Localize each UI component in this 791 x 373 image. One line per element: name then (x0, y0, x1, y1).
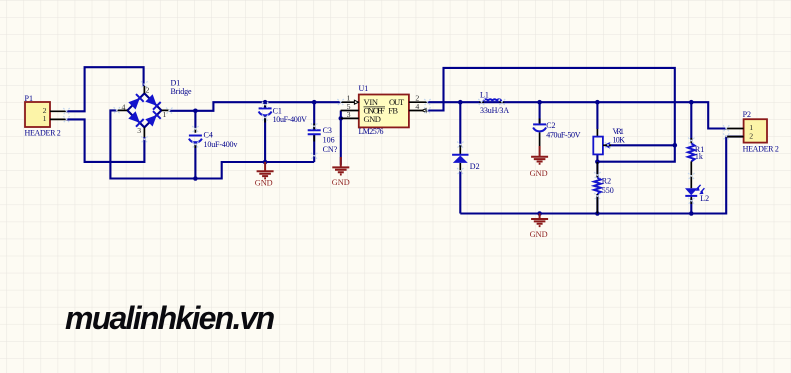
diode BR (145, 115, 157, 127)
diode D2 (452, 145, 479, 172)
U1 pin 5 ON/OFF (341, 110, 359, 112)
svg-text:1k: 1k (695, 152, 703, 161)
svg-text:P2: P2 (743, 110, 751, 119)
U1 pin 3 GND (341, 117, 359, 119)
svg-text:Bridge: Bridge (171, 87, 192, 96)
svg-text:R2: R2 (602, 176, 611, 185)
svg-text:10uF-400V: 10uF-400V (273, 115, 308, 124)
svg-text:L1: L1 (480, 90, 489, 99)
junction D2 top (458, 100, 463, 105)
pin leads (117, 86, 170, 137)
junction gnd rail R2 (595, 211, 600, 216)
U1 pin 4 FB (409, 110, 428, 112)
diode TR (145, 94, 157, 106)
svg-text:VR1: VR1 (613, 127, 624, 136)
junction FB wiper (673, 143, 678, 148)
svg-text:GND: GND (332, 178, 350, 187)
ground under C1 (255, 162, 274, 188)
junction gnd rail L2 (689, 211, 694, 216)
junction VR1 bottom (595, 159, 600, 164)
svg-text:P1: P1 (25, 94, 33, 103)
junction VR1 top (595, 100, 600, 105)
emission arrows (697, 185, 701, 189)
svg-text:CN?: CN? (323, 145, 338, 154)
svg-text:10K: 10K (613, 136, 626, 145)
svg-text:C1: C1 (273, 106, 282, 115)
svg-text:10uF-400v: 10uF-400v (204, 140, 238, 149)
diode BL (128, 111, 140, 123)
inductor L1 (479, 90, 509, 115)
svg-text:3: 3 (347, 110, 351, 119)
svg-text:C2: C2 (546, 121, 555, 130)
op-amp U1 regulator LM2576 (341, 84, 428, 136)
svg-text:1: 1 (43, 114, 47, 123)
svg-text:C4: C4 (204, 130, 213, 139)
wire VR1 wiper tap (610, 144, 675, 146)
svg-text:HEADER 2: HEADER 2 (743, 144, 779, 153)
svg-text:106: 106 (323, 135, 335, 144)
junction R1 top (689, 100, 694, 105)
svg-text:GND: GND (364, 114, 381, 124)
junction C4 bottom (193, 176, 198, 181)
svg-text:D2: D2 (470, 162, 480, 171)
wire U1 OUT rail to P2 pin1 (427, 102, 726, 128)
svg-text:L2: L2 (700, 194, 709, 203)
wire VR1 top lead (596, 102, 598, 129)
header P1 (25, 94, 67, 137)
potentiometer VR1 (593, 127, 625, 155)
wire C1 leads (264, 102, 266, 162)
ground bottom rail (530, 214, 548, 240)
svg-text:3: 3 (137, 126, 141, 135)
ground under U1 (332, 157, 350, 187)
wire C3 leads (313, 102, 315, 162)
junction C2 top (537, 100, 542, 105)
svg-text:4: 4 (415, 102, 419, 111)
wire L2 bottom (690, 199, 692, 214)
wire bridge pin4 to C4- rail (110, 110, 314, 178)
U1 pin 2 OUT (409, 101, 428, 103)
resistor R2 (594, 162, 614, 214)
junction gnd rail C (537, 211, 542, 216)
wire P1 pin2 to bridge top (66, 67, 143, 111)
svg-text:GND: GND (530, 169, 548, 178)
wire C4 top lead (194, 111, 196, 128)
junction C4 top (193, 109, 198, 114)
capacitor C4 (189, 128, 238, 149)
resistor R1 (688, 138, 704, 161)
svg-text:GND: GND (255, 179, 273, 188)
svg-text:470uF-50V: 470uF-50V (546, 131, 581, 140)
svg-text:HEADER 2: HEADER 2 (25, 128, 61, 137)
svg-text:U1: U1 (359, 84, 369, 93)
wire R1 top (690, 102, 692, 141)
wire D2 branch (459, 102, 461, 213)
LED L2 (685, 161, 709, 204)
svg-text:FB: FB (388, 106, 398, 116)
ground under C2 (530, 146, 548, 178)
svg-text:33uH/3A: 33uH/3A (480, 106, 509, 115)
svg-text:4: 4 (122, 103, 126, 112)
wire U1 on/off+gnd to ground (340, 111, 342, 165)
junction U1 gnd pin (339, 116, 344, 121)
diamond outline (127, 93, 161, 127)
svg-text:GND: GND (530, 230, 548, 239)
capacitor C3 (308, 124, 338, 155)
wire ground rail bottom (460, 137, 743, 214)
bridge rectifier D1 (117, 78, 192, 137)
junction C1 bottom / GND (263, 160, 268, 165)
svg-text:C3: C3 (323, 126, 332, 135)
junction C1 top (263, 100, 268, 105)
svg-text:LM2576: LM2576 (359, 127, 384, 136)
svg-text:2: 2 (749, 131, 753, 140)
wire bridge pin1 to VIN rail (169, 102, 340, 111)
diode TL (128, 98, 140, 110)
svg-text:550: 550 (602, 186, 614, 195)
junction C3 top (312, 100, 317, 105)
wire C2 top lead (539, 102, 541, 123)
wire P1 pin1 to bridge bottom (66, 119, 144, 161)
capacitor C1 (259, 104, 308, 124)
wire FB loop (427, 68, 674, 162)
wire C4 bottom lead (194, 141, 196, 178)
wire VR1 bottom to R2 (596, 154, 598, 213)
capacitor C2 (533, 119, 581, 147)
header P2 (726, 110, 779, 154)
svg-text:mualinhkien.vn: mualinhkien.vn (65, 300, 275, 336)
svg-text:1: 1 (163, 110, 167, 119)
U1 pin 1 VIN (341, 101, 359, 103)
no-erc crosses at pin hotspots (63, 108, 69, 114)
